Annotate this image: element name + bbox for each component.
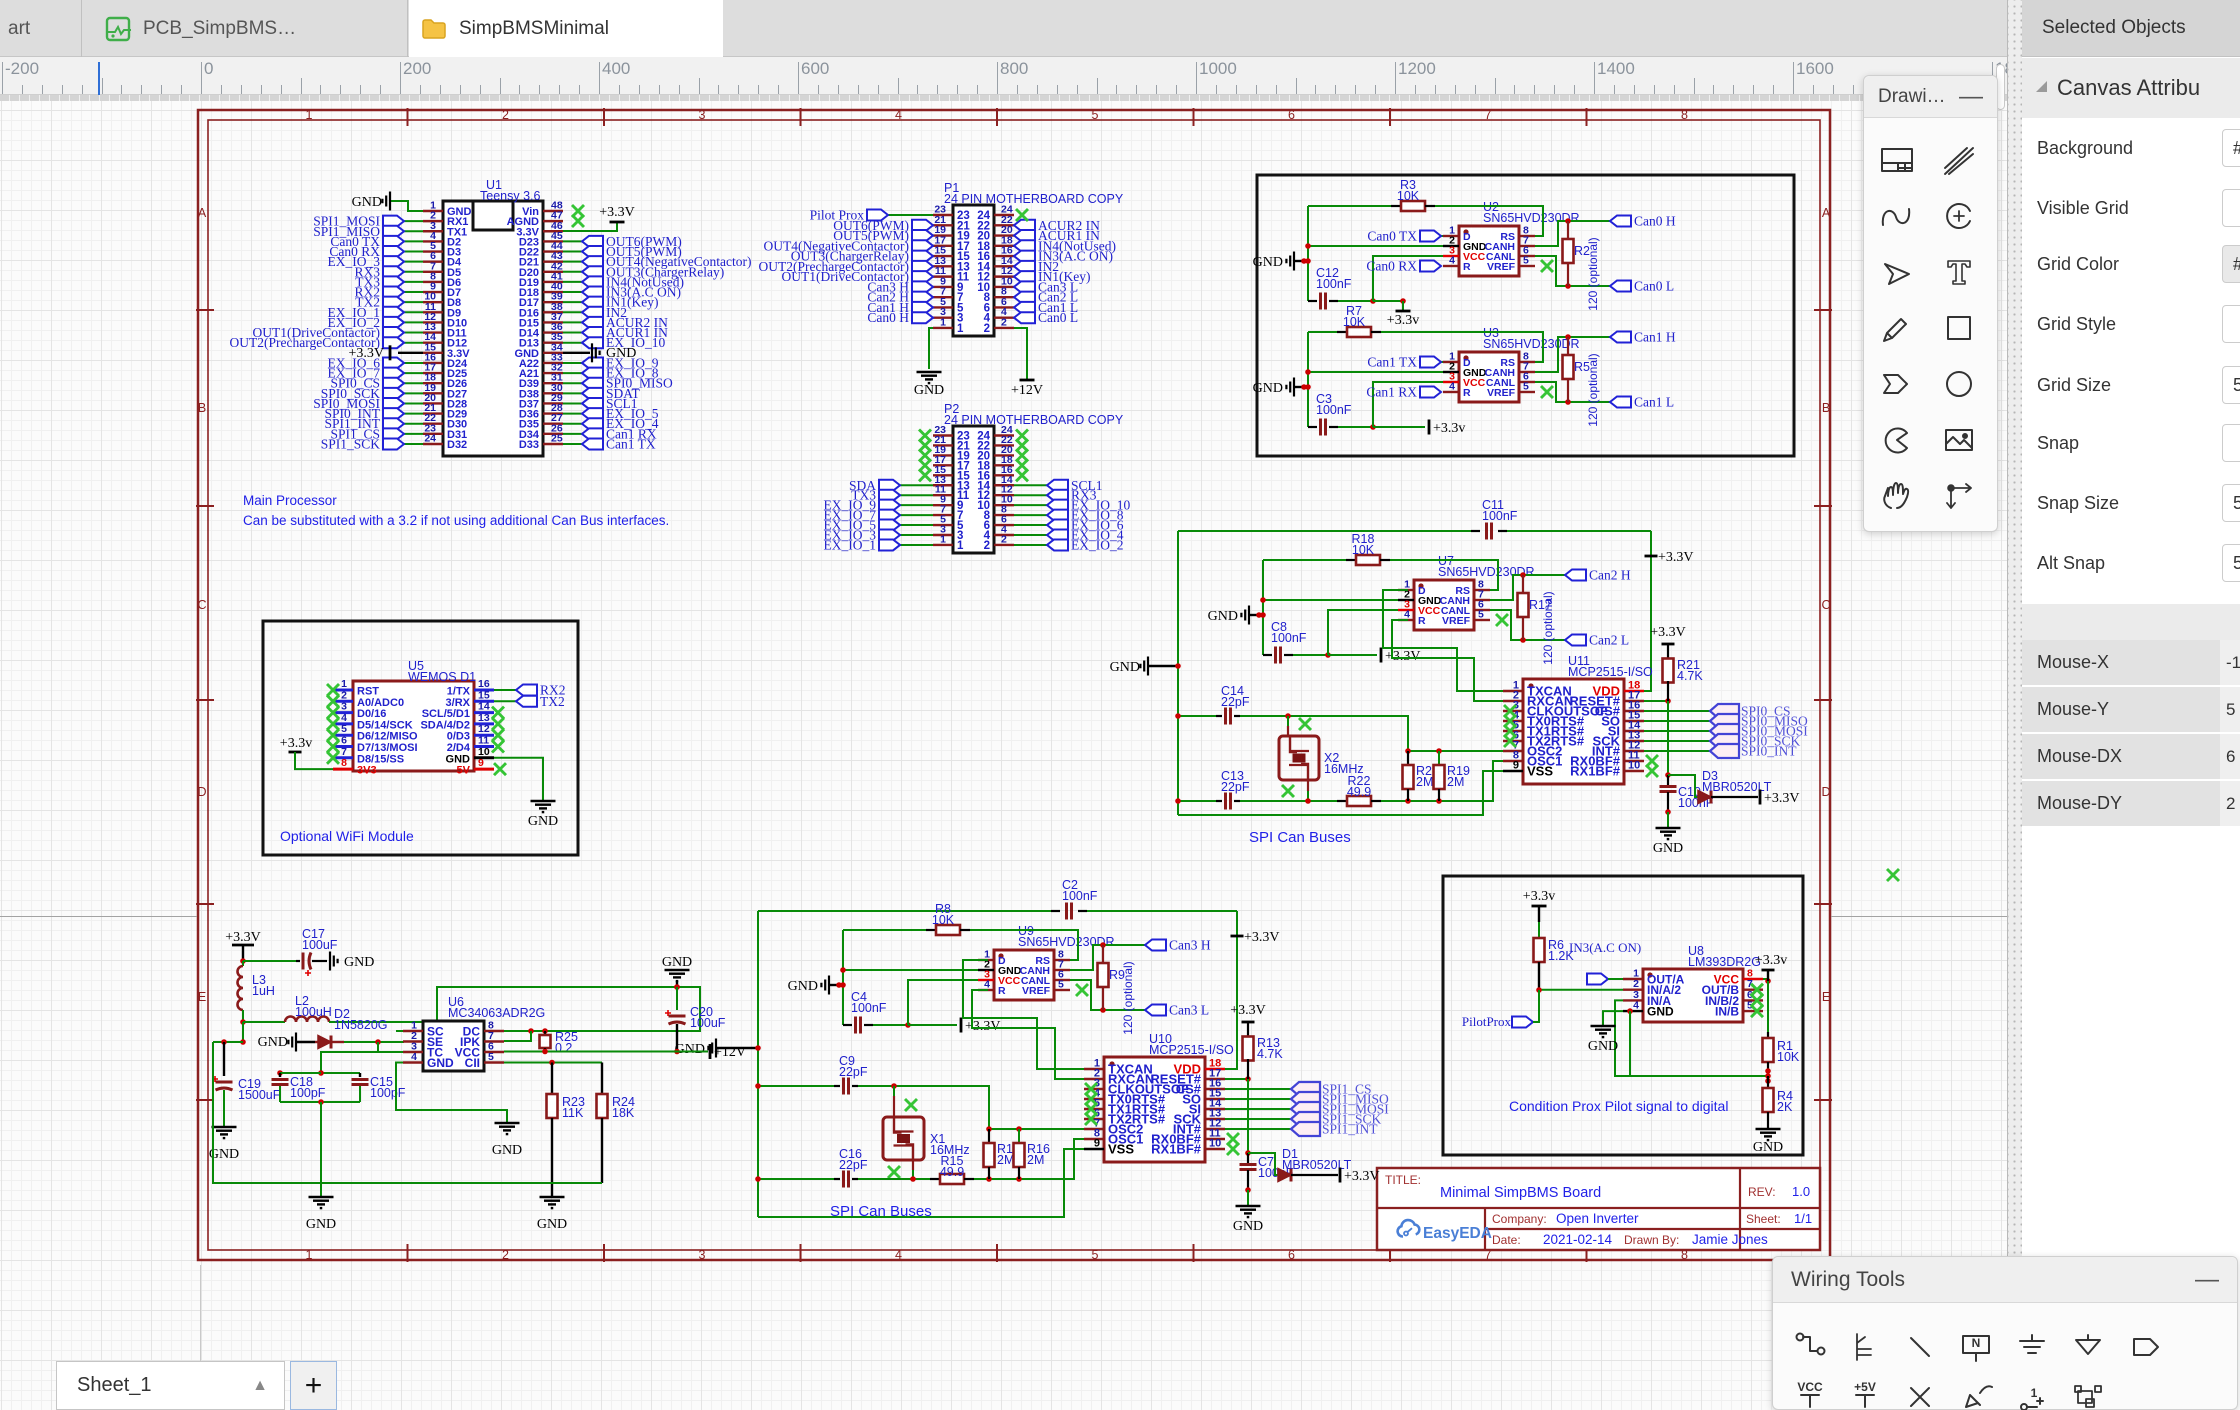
svg-text:Can3 L: Can3 L (1169, 1003, 1209, 1018)
U11 pin 8 OSC1 (1503, 760, 1523, 762)
wire OSC2 row F (989, 1128, 1084, 1130)
wire VCC branch U7 (1328, 610, 1398, 655)
svg-text:10K: 10K (1352, 543, 1375, 557)
U5 pin 15 3/RX (474, 700, 494, 703)
P1 pin 5 (933, 306, 953, 308)
no-connect X U5 pin 4 (327, 718, 339, 730)
net flag ACUR2 IN (1014, 218, 1100, 233)
ground GND at U3 (1286, 378, 1294, 397)
capacitor C2 (1051, 910, 1060, 912)
comparator U8 LM393DR2G body (1643, 969, 1743, 1022)
U11 pin 4 TX0RTS# (1503, 720, 1523, 722)
regulator U6 MC34063ADR2G body (423, 1021, 484, 1071)
title block border (1377, 1168, 1820, 1250)
svg-text:Can1 TX: Can1 TX (1367, 355, 1417, 370)
net flag OUT2(PrechargeContactor) (404, 342, 423, 344)
net flag OUT6(PWM) (563, 240, 582, 242)
U10 pin 14 SI (1205, 1108, 1225, 1110)
ground GND below C10 (1656, 828, 1681, 839)
crystal X1 16MHz (893, 1086, 895, 1096)
capacitor C18 100pF (279, 1073, 281, 1077)
CAN controller U10 body (1104, 1057, 1205, 1162)
U1 pin 18 (423, 382, 443, 384)
U10 pin 1 TXCAN (1084, 1068, 1104, 1070)
svg-text:+3.3V: +3.3V (1764, 791, 1800, 806)
svg-text:1/TX: 1/TX (447, 686, 471, 698)
resistor R13 (1242, 1021, 1255, 1024)
ground GND below R23 (540, 1197, 565, 1208)
svg-text:22pF: 22pF (1221, 695, 1250, 709)
P2 pin 13 (933, 484, 953, 486)
wire GND to U2 pin2 (1308, 245, 1443, 247)
net flag Can1 H (1610, 330, 1676, 345)
svg-text:+3.3V: +3.3V (599, 205, 635, 220)
U6 pin 5 CII (484, 1061, 504, 1063)
net flag EX_IO_9 (900, 504, 933, 506)
U10 pin 11 RX0BF# (1205, 1138, 1225, 1140)
svg-text:Can1 H: Can1 H (1634, 330, 1676, 345)
svg-text:10K: 10K (1397, 189, 1420, 203)
U1 pin 7 (423, 271, 443, 273)
svg-text:10: 10 (1628, 760, 1640, 772)
ground GND at U7 (1241, 606, 1249, 625)
svg-text:4: 4 (1404, 609, 1410, 621)
svg-text:7: 7 (341, 746, 347, 758)
svg-text:D: D (1821, 785, 1830, 799)
P1 pin 1 (933, 327, 953, 329)
no-connect X P2 pin 23 (919, 430, 931, 442)
net flag IN1(Key) (1014, 269, 1090, 284)
svg-text:B: B (1822, 401, 1830, 415)
P1 pin 22 (994, 224, 1014, 226)
wire C4 bottom (873, 1024, 908, 1026)
ground GND at U1 pin1 (382, 192, 390, 211)
no-connect X U8 IN/B/2 (1751, 994, 1763, 1006)
U9 pin 5 VREF (1054, 989, 1070, 991)
U1 pin 34 (543, 352, 563, 354)
net flag EX_IO_6 (1014, 524, 1047, 526)
net flag EX_IO_8 (1014, 514, 1047, 516)
svg-text:11: 11 (478, 735, 489, 747)
svg-text:1.0: 1.0 (1792, 1184, 1810, 1199)
resistor R14 2M (988, 1129, 990, 1143)
U11 pin 2 RXCAN (1503, 700, 1523, 702)
svg-text:Can2 L: Can2 L (1589, 633, 1629, 648)
wire R7 RS (1381, 332, 1543, 362)
net flag EX_IO_1 (404, 311, 423, 313)
P1 pin 14 (994, 265, 1014, 267)
net flag TX2 (404, 301, 423, 303)
net flag Can2 H (867, 290, 933, 305)
U1 pin 48 (543, 210, 563, 212)
U3 pin 5 VREF (1519, 391, 1535, 393)
svg-text:10: 10 (478, 746, 490, 758)
wire R6 to IN/A/2 (1539, 989, 1623, 991)
P2 pin 11 (933, 494, 953, 496)
resistor R7 (1308, 331, 1337, 333)
svg-text:VREF: VREF (1487, 387, 1516, 399)
svg-text:SPI1_SCK: SPI1_SCK (321, 436, 381, 451)
wire R24 feedback loop (213, 1042, 602, 1183)
svg-text:8: 8 (341, 757, 347, 769)
no-connect X U8 IN/B (1751, 1005, 1763, 1017)
U2 pin 7 CANH (1519, 245, 1535, 247)
svg-text:49.9: 49.9 (940, 1165, 964, 1179)
power +3.3V at U1 pin15 (398, 352, 423, 354)
svg-text:+3.3V: +3.3V (225, 930, 261, 945)
U10 pin 4 TX0RTS# (1084, 1098, 1104, 1100)
CAN controller U11 body (1523, 679, 1624, 784)
no-connect X U5 pin 5 (327, 729, 339, 741)
wire C7 to GND (1245, 1187, 1251, 1193)
P2 pin 17 (933, 464, 953, 466)
U7 pin 8 RS (1474, 589, 1490, 591)
svg-text:6: 6 (341, 735, 347, 747)
svg-text:1/1: 1/1 (1794, 1211, 1812, 1226)
no-connect X P2 pin 21 (919, 439, 931, 451)
svg-text:GND: GND (1588, 1039, 1618, 1054)
U6 pin 6 VCC (484, 1051, 504, 1053)
P1 pin 20 (994, 234, 1014, 236)
U10 pin 13 SCK (1205, 1118, 1225, 1120)
U1 pin 23 (423, 433, 443, 435)
wire CANH to Can3 H (1070, 945, 1145, 970)
wire R8 RS (970, 930, 1078, 960)
svg-text:Teensy 3.6: Teensy 3.6 (480, 189, 541, 203)
net flag Can2 L (1014, 290, 1078, 305)
ground GND below P1 (917, 372, 942, 383)
U1 pin 9 (423, 291, 443, 293)
U8 pin 3 IN/A (1623, 999, 1643, 1001)
resistor R25 0.2 (544, 1031, 546, 1035)
capacitor C16 (842, 1171, 845, 1188)
svg-text:Date:: Date: (1492, 1233, 1521, 1247)
svg-text:SPI Can Buses: SPI Can Buses (1249, 829, 1351, 846)
U1 pin 16 (423, 362, 443, 364)
U1 pin 33 (543, 362, 563, 364)
capacitor C13 (1224, 793, 1227, 810)
svg-text:VSS: VSS (1108, 1142, 1134, 1157)
U6 pin 1 SC (403, 1030, 423, 1032)
U11 pin 6 TX2RTS# (1503, 740, 1523, 742)
U1 pin 8 (423, 281, 443, 283)
resistor R8 (843, 929, 926, 931)
svg-text:EasyEDA: EasyEDA (1423, 1225, 1492, 1242)
svg-text:100nF: 100nF (1316, 277, 1352, 291)
wire U7 D to U11 TXCAN (1383, 590, 1503, 691)
U9 pin 7 CANH (1054, 969, 1070, 971)
U10 pin 16 CS# (1205, 1088, 1225, 1090)
no-connect X U10 pin 4 (1085, 1093, 1097, 1105)
svg-text:C: C (1821, 598, 1830, 612)
svg-text:GND: GND (352, 195, 382, 210)
P1 pin 19 (933, 234, 953, 236)
svg-text:SCL/5/D1: SCL/5/D1 (422, 708, 470, 720)
ground GND far left block F (708, 1039, 716, 1058)
svg-text:4: 4 (341, 712, 347, 724)
svg-text:100pF: 100pF (290, 1086, 326, 1100)
frame column tick (996, 108, 998, 126)
svg-text:WEMOS D1: WEMOS D1 (408, 670, 476, 684)
no-connect X U9 VREF (1076, 984, 1088, 996)
U5 pin 8 3V3 (333, 768, 353, 771)
net flag Can0 RX (404, 251, 423, 253)
U1 pin 46 (543, 230, 563, 232)
wire SPI1_INT (1225, 1128, 1291, 1130)
svg-text:+3.3v: +3.3v (1755, 953, 1787, 968)
svg-text:100nF: 100nF (1482, 509, 1518, 523)
svg-text:GND: GND (675, 1042, 705, 1057)
svg-text:Company:: Company: (1492, 1212, 1547, 1226)
wire CANL to Can3 L (1070, 980, 1145, 1010)
sheet inner border frame (208, 120, 1820, 1250)
U1 pin 5 (423, 250, 443, 252)
svg-text:Condition Prox Pilot signal to: Condition Prox Pilot signal to digital (1509, 1098, 1728, 1114)
wire C8 bottom (1293, 654, 1328, 656)
net flag TX3 (900, 494, 933, 496)
net flag SPI1_MISO (404, 230, 423, 232)
wire R22 to resistors (1381, 761, 1503, 801)
power +3.3V stub right (1645, 555, 1658, 558)
wire VCC branch U9 (908, 980, 978, 1025)
CAN transceiver U3 body (1459, 352, 1519, 402)
no-connect X P2 pin 19 (919, 449, 931, 461)
svg-text:5: 5 (1523, 255, 1529, 267)
U1 pin 4 (423, 240, 443, 242)
U11 pin 13 SCK (1624, 740, 1644, 742)
net flag Can1 H (867, 300, 933, 315)
svg-text:GND: GND (606, 346, 636, 361)
wire U9 R to U10 RXCAN (972, 990, 1084, 1079)
U11 pin 1 TXCAN (1503, 690, 1523, 692)
top tab bar (0, 0, 2240, 57)
net flag SDAT (563, 392, 582, 394)
resistor R9 120 ohm termination (1102, 945, 1104, 964)
U1 pin 45 (543, 240, 563, 242)
svg-text:1: 1 (957, 540, 964, 552)
svg-text:A0/ADC0: A0/ADC0 (357, 697, 404, 709)
wire rail U2 (1307, 206, 1309, 301)
wire C12 bottom (1338, 300, 1373, 302)
net flag SPI1_CS (404, 433, 423, 435)
U1 pin 42 (543, 271, 563, 273)
power +3.3V at C8 (1328, 654, 1377, 656)
resistor R19 2M (1438, 751, 1440, 765)
U8 pin 4 GND (1623, 1010, 1643, 1012)
svg-text:1: 1 (341, 678, 347, 690)
wire C16 row (758, 1178, 834, 1180)
svg-text:GND: GND (1233, 1219, 1263, 1234)
svg-text:2M: 2M (1027, 1153, 1044, 1167)
svg-text:100uH: 100uH (295, 1005, 332, 1019)
U5 pin 10 GND (474, 756, 494, 759)
wire P1 pin2 to +12V (1014, 328, 1027, 379)
net flag SDA (900, 484, 933, 486)
svg-text:6: 6 (1288, 1248, 1295, 1262)
U1 pin 6 (423, 260, 443, 262)
svg-text:4: 4 (411, 1051, 417, 1063)
U5 pin 16 1/TX (474, 689, 494, 692)
net flag OUT6(PWM) (833, 218, 933, 233)
P2 pin 22 (994, 444, 1014, 446)
net flag EX_IO_2 (404, 321, 423, 323)
wire C3 bottom (1338, 426, 1373, 428)
net flag ACUR1 IN (563, 332, 582, 334)
no-connect X U2 VREF (1541, 260, 1553, 272)
no-connect X U3 VREF (1541, 386, 1553, 398)
wire C13 to R22 (1240, 800, 1337, 802)
net flag EX_IO_10 (1014, 504, 1047, 506)
svg-text:Sheet:: Sheet: (1746, 1212, 1781, 1226)
no-connect X P2 pin 24 (1016, 430, 1028, 442)
net flag EX_IO_5 (563, 413, 582, 415)
U1 pin 47 (543, 220, 563, 222)
wire SPI0_CS (1644, 710, 1710, 712)
wire VCC branch U2 (1373, 256, 1443, 301)
svg-text:RX1BF#: RX1BF# (1570, 764, 1621, 779)
wire block E top rail (1177, 531, 1179, 815)
svg-text:VREF: VREF (1022, 985, 1051, 997)
capacitor C4 (843, 1024, 852, 1026)
wire CANH to Can1 H (1535, 337, 1610, 372)
svg-text:A: A (198, 206, 207, 220)
P2 pin 12 (994, 494, 1014, 496)
no-connect X U8 OUT/B (1751, 984, 1763, 996)
sheet tab (56, 1361, 285, 1410)
ground GND at U1 pin34 (563, 352, 590, 354)
capacitor C15 100pF (359, 1073, 361, 1077)
svg-text:100nF: 100nF (1062, 889, 1098, 903)
net flag RX2 (494, 689, 516, 691)
svg-text:GND: GND (1110, 660, 1140, 675)
U7 pin 5 VREF (1474, 619, 1490, 621)
wire U7 R to U11 RXCAN (1392, 620, 1503, 701)
P1 pin 9 (933, 286, 953, 288)
power +12V (709, 1044, 712, 1059)
svg-text:Can0 L: Can0 L (1634, 279, 1674, 294)
svg-text:0.2: 0.2 (555, 1041, 572, 1055)
U1 pin 14 (423, 341, 443, 343)
net flag EX_IO_7 (900, 514, 933, 516)
svg-text:10: 10 (1209, 1138, 1221, 1150)
wire RESET# to R13 rail (1225, 1078, 1248, 1080)
svg-text:18K: 18K (612, 1106, 635, 1120)
svg-text:CII: CII (465, 1056, 480, 1070)
wire C14 to OSC2 (1240, 716, 1408, 751)
P2 pin 9 (933, 504, 953, 506)
svg-text:E: E (198, 990, 206, 1004)
net flag SPI0_INT (404, 413, 423, 415)
svg-text:VREF: VREF (1487, 261, 1516, 273)
stray no-connect X right of sheet (1887, 869, 1899, 881)
svg-text:4: 4 (1633, 1000, 1639, 1012)
svg-text:4: 4 (984, 979, 990, 991)
no-connect X U10 RX0BF# (1227, 1133, 1239, 1145)
no-connect X P2 pin 22 (1016, 439, 1028, 451)
U1 pin 22 (423, 423, 443, 425)
no-connect X P2 pin 16 (1016, 469, 1028, 481)
U10 pin 6 TX2RTS# (1084, 1118, 1104, 1120)
net flag EX_IO_8 (563, 372, 582, 374)
wire U5 GND (494, 758, 543, 800)
wire SPI0_MISO (1644, 720, 1710, 722)
U7 pin 2 GND (1398, 599, 1414, 601)
P1 pin 21 (933, 224, 953, 226)
wire VSS bottom F (758, 1149, 1084, 1217)
net flag SPI0_SCK (404, 392, 423, 394)
svg-text:9: 9 (1094, 1138, 1100, 1150)
svg-text:1: 1 (306, 1248, 313, 1262)
svg-text:+3.3V: +3.3V (1344, 1169, 1380, 1184)
svg-text:EX_IO_1: EX_IO_1 (824, 537, 877, 552)
frame row tick (196, 309, 214, 311)
U3 pin 6 CANL (1519, 381, 1535, 383)
P1 pin 24 (994, 214, 1014, 216)
svg-text:100nF: 100nF (1271, 631, 1307, 645)
svg-text:15: 15 (478, 689, 490, 701)
net flag SPI1_MOSI (404, 220, 423, 222)
P1 pin 3 (933, 317, 953, 319)
svg-text:10K: 10K (1343, 315, 1366, 329)
svg-text:R: R (1418, 615, 1426, 627)
svg-text:Drawn By:: Drawn By: (1624, 1233, 1679, 1247)
net flag Can3 H (1145, 938, 1211, 953)
P2 pin 16 (994, 474, 1014, 476)
P2 pin 14 (994, 484, 1014, 486)
wire P1 pin1 to GND (929, 328, 933, 369)
U9 pin 1 D (978, 959, 994, 961)
svg-text:SN65HVD230DR: SN65HVD230DR (1483, 211, 1580, 225)
U1 pin 26 (543, 433, 563, 435)
svg-text:+3.3V: +3.3V (1244, 930, 1280, 945)
svg-text:Can0 RX: Can0 RX (1366, 259, 1417, 274)
P2 pin 19 (933, 454, 953, 456)
svg-text:3/RX: 3/RX (446, 697, 471, 709)
wire RESET# to R21 rail (1644, 700, 1668, 702)
U10 pin 8 OSC1 (1084, 1138, 1104, 1140)
wire SE to TC jog (378, 1042, 404, 1052)
ground GND right of C17 (330, 952, 338, 971)
P2 pin 20 (994, 454, 1014, 456)
frame column tick (1193, 108, 1195, 126)
U10 pin 10 RX1BF# (1205, 1148, 1225, 1150)
net flag EX_IO_6 (404, 362, 423, 364)
svg-text:Minimal SimpBMS Board: Minimal SimpBMS Board (1440, 1185, 1601, 1201)
U1 pin 15 (423, 352, 443, 354)
U1 pin 37 (543, 321, 563, 323)
U10 pin 17 RESET# (1205, 1078, 1225, 1080)
power +3.3V at D3 (1759, 790, 1762, 805)
U1 pin 38 (543, 311, 563, 313)
U10 pin 2 RXCAN (1084, 1078, 1104, 1080)
capacitor C10 (1665, 772, 1671, 778)
svg-text:22pF: 22pF (839, 1158, 868, 1172)
svg-text:5: 5 (1478, 609, 1484, 621)
svg-text:RST: RST (357, 686, 379, 698)
svg-text:SPI1_INT: SPI1_INT (1322, 1122, 1378, 1137)
ground GND at U2 (1286, 252, 1294, 271)
svg-text:120 (optional): 120 (optional) (1586, 353, 1600, 426)
svg-text:GND: GND (528, 814, 558, 829)
CAN transceiver U9 body (994, 950, 1054, 1000)
net flag Can1 TX (1441, 361, 1443, 363)
resistor R18 (1263, 559, 1346, 561)
svg-text:10K: 10K (1777, 1050, 1800, 1064)
U5 pin 7 D8/15/SS (333, 756, 353, 759)
U10 pin 7 OSC2 (1084, 1128, 1104, 1130)
ground GND below C19 (212, 1127, 237, 1138)
U3 pin 4 R (1443, 391, 1459, 393)
